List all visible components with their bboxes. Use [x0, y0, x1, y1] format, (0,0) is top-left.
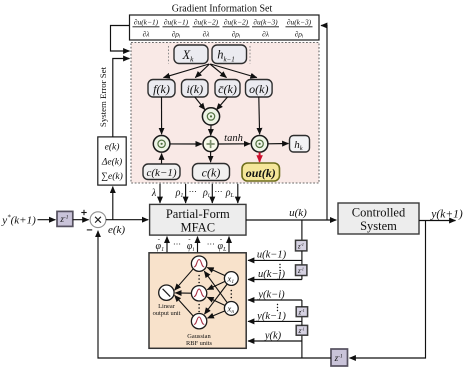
- right odot operator: [251, 136, 268, 153]
- svg-text:∂λ: ∂λ: [143, 29, 151, 38]
- wire X1 to RBF top: [207, 268, 225, 276]
- svg-text:y(k): y(k): [264, 331, 282, 342]
- wire MFAC output u(k) to controlled system: [246, 219, 336, 221]
- linear output unit neuron: [159, 285, 174, 300]
- wire feedback bottom run to comparator: [98, 231, 331, 358]
- wire e(k) branch up to error set box: [112, 187, 114, 220]
- wire RBF bottom to linear unit: [175, 295, 194, 316]
- wire X1 to RBF mid: [207, 281, 225, 289]
- wire u(k-j) into RBF box: [248, 279, 302, 281]
- box out(k) highlighted: [242, 163, 280, 181]
- box h_k: [290, 136, 310, 153]
- wire plus to c(k): [210, 152, 212, 162]
- dots between X1 and Xn: [231, 290, 233, 299]
- svg-text:∂λ: ∂λ: [262, 29, 270, 38]
- wire y* to delay: [38, 219, 56, 221]
- svg-text:∂u(k−3): ∂u(k−3): [287, 18, 312, 27]
- svg-text:c(k): c(k): [202, 166, 221, 180]
- svg-text:RBF units: RBF units: [186, 340, 213, 347]
- svg-text:Gaussian: Gaussian: [187, 333, 211, 340]
- gaussian RBF neuron bottom: [191, 314, 206, 329]
- svg-text:∑e(k): ∑e(k): [101, 171, 123, 182]
- svg-text:tanh: tanh: [224, 133, 243, 144]
- svg-text:u(k−1): u(k−1): [257, 250, 287, 261]
- svg-text:⋯: ⋯: [207, 240, 215, 249]
- svg-text:∂λ: ∂λ: [203, 29, 211, 38]
- wire system output y(k+1): [419, 220, 456, 222]
- svg-text:∂u(k−3): ∂u(k−3): [253, 18, 278, 27]
- wire z3 to y(k-1) tap: [301, 317, 303, 326]
- svg-text:y(k−1): y(k−1): [256, 311, 286, 322]
- wire Xn to RBF top: [204, 271, 227, 303]
- wire fan to i(k): [195, 64, 209, 78]
- wire fan to c-bar(k): [210, 64, 227, 78]
- wire u(k) riser to gradient box: [321, 26, 327, 221]
- svg-text:c̄(k): c̄(k): [218, 82, 237, 96]
- svg-text:output unit: output unit: [153, 310, 181, 317]
- wire y feedback riser: [301, 335, 303, 358]
- svg-text:Δe(k): Δe(k): [101, 156, 122, 167]
- svg-text:Partial-Form: Partial-Form: [166, 207, 230, 221]
- wire delay to comparator: [73, 219, 89, 221]
- wire z1 to u(k-1) tap: [301, 251, 303, 265]
- wire gradient box loop to LSTM: [111, 26, 130, 52]
- input neuron X1: [224, 272, 238, 286]
- svg-text:Controlled: Controlled: [352, 206, 406, 220]
- wire error set to LSTM: [113, 59, 130, 137]
- wire c(k-1) to left odot: [161, 154, 163, 164]
- wire plus to right odot: [218, 143, 250, 145]
- delay z3 on y chain: [296, 325, 307, 335]
- wire top odot to plus: [210, 125, 212, 135]
- wire phi_1 to MFAC: [166, 237, 168, 253]
- svg-text:λ: λ: [151, 188, 157, 199]
- svg-text:Gradient Information Set: Gradient Information Set: [172, 4, 273, 15]
- input box h_k-1: [212, 45, 247, 64]
- svg-text:u(k−j): u(k−j): [258, 269, 285, 280]
- input neuron Xn: [224, 302, 238, 316]
- gradient information box: [130, 15, 320, 40]
- box c(k): [193, 164, 230, 181]
- svg-text:e(k): e(k): [108, 224, 125, 236]
- wire u(k) branch down to delay chain: [301, 220, 303, 240]
- gaussian RBF neuron top: [191, 256, 206, 271]
- fraction du(k-2)/drho_i: [223, 18, 250, 40]
- svg-text:o(k): o(k): [249, 82, 268, 96]
- wire comparator to MFAC: [106, 219, 148, 221]
- svg-text:∂u(k−1): ∂u(k−1): [164, 18, 189, 27]
- svg-text:y*(k+1): y*(k+1): [1, 214, 36, 227]
- wire rho_1 to MFAC: [185, 184, 187, 203]
- wire RBF top to linear unit: [175, 269, 194, 290]
- wire y(k) into RBF box: [248, 340, 302, 342]
- svg-text:Linear: Linear: [158, 303, 176, 310]
- wire o(k) to right odot: [258, 97, 261, 134]
- svg-text:∂u(k−1): ∂u(k−1): [134, 18, 159, 27]
- input box X_k: [174, 45, 208, 64]
- left odot operator: [153, 136, 170, 153]
- wire left odot to plus: [170, 143, 202, 145]
- wire f(k) to left odot: [161, 97, 163, 134]
- dashed continuation mark right of h_k-1: [249, 46, 251, 64]
- RBF neural network box: [149, 253, 246, 348]
- wire c-bar(k) to top odot: [217, 97, 228, 110]
- gate box i(k): [182, 80, 209, 98]
- wire phi_L to MFAC: [228, 237, 230, 253]
- top odot operator: [202, 108, 219, 125]
- label plus sign: [81, 210, 86, 215]
- svg-text:System Error Set: System Error Set: [98, 66, 108, 127]
- dashed continuation mark left of X_k: [168, 46, 170, 64]
- svg-text:MFAC: MFAC: [181, 221, 216, 235]
- svg-text:⋯: ⋯: [189, 187, 197, 196]
- wire X1 to RBF bottom: [205, 284, 228, 314]
- wire right odot to h_k: [268, 143, 289, 145]
- gate box o(k): [246, 80, 273, 98]
- delay z1 on u chain: [296, 240, 307, 251]
- LSTM dashed pink container: [131, 43, 319, 184]
- dots between RBF neurons lower: [198, 304, 200, 313]
- fraction du(k-3)/drho_i: [286, 18, 313, 40]
- svg-text:∂u(k−2): ∂u(k−2): [224, 18, 249, 27]
- wire Xn to RBF mid: [207, 297, 225, 305]
- gate box f(k): [148, 80, 175, 98]
- svg-text:u(k): u(k): [289, 207, 307, 219]
- wire lambda to MFAC: [159, 184, 161, 203]
- wire i(k) to top odot: [195, 97, 205, 110]
- svg-text:e(k): e(k): [105, 141, 120, 152]
- system error set box: [98, 137, 126, 185]
- Partial-Form MFAC block: [150, 204, 246, 235]
- wire rho_L to MFAC: [237, 184, 239, 203]
- wire Xn to RBF bottom: [208, 311, 225, 318]
- svg-text:c(k−1): c(k−1): [146, 167, 176, 179]
- svg-text:y(k−i): y(k−i): [257, 290, 285, 301]
- wire y(k-1) into RBF box: [248, 320, 302, 322]
- wire RBF mid to linear unit: [175, 292, 191, 294]
- delay z^-1 reference: [57, 211, 73, 226]
- dots between y labels: [277, 304, 278, 311]
- plus operator: [203, 136, 218, 151]
- wire output feedback drop: [350, 221, 426, 359]
- wire z2 to u(k-j) tap: [301, 276, 303, 280]
- wire u(k-1) into RBF box: [248, 259, 302, 261]
- wire fan to f(k): [164, 64, 210, 78]
- red wire right odot to out(k): [259, 152, 261, 161]
- label minus sign: [87, 229, 92, 231]
- fraction du(k-3)/dlambda: [252, 18, 279, 39]
- box c(k-1): [143, 164, 180, 180]
- svg-text:f(k): f(k): [153, 82, 170, 96]
- svg-text:⋯: ⋯: [215, 187, 223, 196]
- wire z4 to y(k-i) tap: [301, 300, 303, 307]
- svg-text:⋯: ⋯: [173, 240, 181, 249]
- delay z4 on y chain: [296, 307, 307, 317]
- svg-text:out(k): out(k): [246, 166, 276, 180]
- wire rho_i to MFAC: [211, 184, 213, 203]
- wire y(k-i) into RBF box: [248, 299, 302, 301]
- fraction du(k-2)/dlambda: [193, 18, 220, 39]
- svg-text:i(k): i(k): [186, 82, 203, 96]
- svg-text:y(k+1): y(k+1): [430, 209, 463, 221]
- gate box c-bar(k): [215, 80, 240, 98]
- delay z^-1 feedback: [331, 349, 348, 366]
- Controlled System block: [338, 203, 419, 234]
- fraction du(k-1)/dlambda: [133, 18, 160, 39]
- gaussian RBF neuron middle: [191, 286, 206, 301]
- comparator circle: [90, 212, 106, 228]
- svg-text:∂u(k−2): ∂u(k−2): [194, 18, 219, 27]
- dots between RBF neurons: [198, 275, 200, 284]
- svg-text:System: System: [360, 219, 397, 233]
- dots between u labels: [279, 264, 280, 271]
- delay z2 on u chain: [296, 265, 307, 276]
- fraction du(k-1)/drho_i: [163, 18, 190, 40]
- wire phi_i to MFAC: [197, 237, 199, 253]
- wire fan to o(k): [211, 64, 257, 78]
